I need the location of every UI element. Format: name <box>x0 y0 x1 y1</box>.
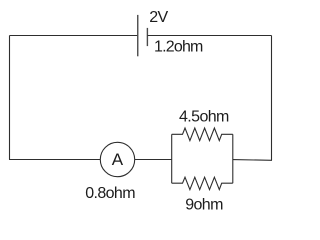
resistor R1 4.5ohm zigzag (top branch) <box>172 128 233 141</box>
svg-text:A: A <box>112 150 124 169</box>
resistor R2 9ohm zigzag (bottom branch) <box>172 177 233 189</box>
node left bar of parallel block <box>171 134 173 183</box>
wire ammeter to parallel block <box>135 159 172 161</box>
wire right vertical <box>271 36 273 161</box>
svg-text:2V: 2V <box>149 9 168 26</box>
node right bar of parallel block <box>232 134 234 183</box>
wire from right vertical to parallel block <box>233 159 272 162</box>
wire top-right (battery to right side) <box>147 35 271 37</box>
wire bottom (to ammeter) <box>9 159 100 161</box>
svg-text:9ohm: 9ohm <box>185 196 223 213</box>
svg-text:1.2ohm: 1.2ohm <box>154 39 203 56</box>
battery V1 short plate (negative) <box>146 28 148 46</box>
ammeter A1 circle <box>100 142 134 176</box>
svg-text:4.5ohm: 4.5ohm <box>179 108 229 125</box>
svg-text:0.8ohm: 0.8ohm <box>85 185 135 202</box>
wire left vertical <box>9 36 11 160</box>
battery V1 long plate (positive) <box>137 15 139 56</box>
wire top-left (battery to left side) <box>10 35 138 37</box>
